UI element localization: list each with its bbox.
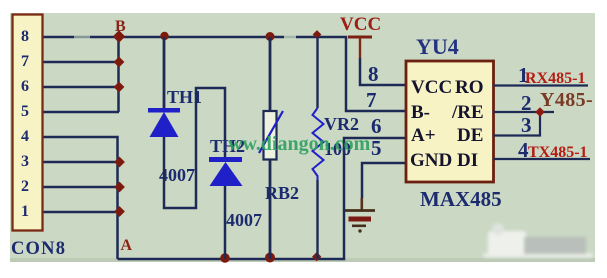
svg-text:/RE: /RE bbox=[451, 102, 484, 123]
svg-text:6: 6 bbox=[21, 78, 29, 95]
svg-text:DI: DI bbox=[457, 150, 478, 171]
svg-text:4007: 4007 bbox=[226, 210, 262, 230]
junction diamond on pin2 stub end bbox=[114, 182, 125, 193]
svg-text:GND: GND bbox=[410, 150, 452, 171]
junction dot bottom rail at TH2 bbox=[220, 253, 230, 263]
wire: chip pin5 GND to ground bbox=[362, 163, 406, 198]
diode TH1 symbol bbox=[148, 108, 180, 137]
wire fade artifact on top rail left bbox=[74, 35, 90, 40]
svg-text:VR2: VR2 bbox=[324, 114, 359, 134]
wire: TH2 anode down to bottom rail bbox=[224, 186, 227, 259]
wire: chip pin2 /RE out bbox=[494, 111, 555, 113]
connector CON8 body bbox=[13, 15, 43, 231]
wire: chip pin3 DE up to pin2 bbox=[494, 112, 541, 136]
svg-text:ww.diangon.com: ww.diangon.com bbox=[228, 133, 371, 155]
svg-text:TX485-1: TX485-1 bbox=[528, 144, 588, 161]
op-amp U1: MAX485 chip body YU4 bbox=[406, 61, 494, 182]
wire fade artifact on top rail right bbox=[284, 35, 296, 40]
resistor VR2 bottom lead bbox=[316, 180, 318, 259]
svg-text:RX485-1: RX485-1 bbox=[525, 70, 585, 87]
junction diamond on pin7 stub end bbox=[114, 57, 125, 68]
wire: CON8 pin6 stub bbox=[44, 86, 120, 89]
svg-text:YU4: YU4 bbox=[416, 34, 459, 59]
svg-text:DE: DE bbox=[457, 125, 483, 146]
svg-text:7: 7 bbox=[366, 88, 377, 112]
wire: CON8 pin1 stub bbox=[44, 211, 120, 214]
svg-text:A+: A+ bbox=[411, 125, 436, 146]
resistor RB2 bottom lead bbox=[269, 160, 272, 260]
junction diamond at node B bbox=[113, 30, 125, 42]
junction dot top rail at RB2 bbox=[266, 32, 275, 41]
wire: CON8 pin5 stub bbox=[44, 111, 120, 114]
power symbol VCC bar and stem bbox=[348, 37, 372, 58]
svg-text:Y485-: Y485- bbox=[540, 89, 593, 111]
resistor VR2 zigzag symbol bbox=[313, 108, 324, 182]
junction diamond on pin1 stub end bbox=[114, 206, 125, 217]
wire: VCC stem down to chip pin8 bbox=[360, 58, 406, 85]
resistor RB2 body (varistor box with slash) bbox=[259, 111, 283, 160]
svg-text:8: 8 bbox=[21, 28, 29, 45]
junction diamond top rail at VR2 bbox=[313, 30, 322, 39]
wire: CON8 pin7 stub bbox=[44, 61, 120, 64]
wire: chip pin4 DI out bbox=[494, 158, 591, 160]
svg-text:CON8: CON8 bbox=[11, 239, 66, 259]
diode TH1 top lead bbox=[163, 37, 166, 109]
svg-text:A: A bbox=[121, 237, 133, 254]
junction diamond on pin6 stub end bbox=[114, 82, 125, 93]
svg-text:3: 3 bbox=[21, 153, 29, 170]
junction dot bottom rail at RB2 bbox=[265, 253, 275, 263]
watermark gray blob bbox=[483, 223, 593, 258]
svg-text:5: 5 bbox=[21, 103, 29, 120]
svg-text:VCC: VCC bbox=[340, 14, 381, 35]
junction diamond bottom rail at VR2 bbox=[312, 252, 321, 261]
svg-text:5: 5 bbox=[371, 136, 382, 160]
wire: CON8 pin4 stub turning down as A net vertical bbox=[44, 137, 118, 259]
svg-text:1: 1 bbox=[21, 203, 29, 220]
wire: B net vertical joining pins 8,7,6,5 bbox=[117, 37, 120, 112]
junction diamond on pin3 stub end bbox=[114, 157, 125, 168]
wire: CON8 pin2 stub bbox=[44, 186, 120, 189]
svg-text:6: 6 bbox=[371, 114, 382, 138]
wire: pin8 to top rail B, runs to right corner bbox=[44, 37, 407, 111]
junction dot top rail at TH1 bbox=[160, 32, 168, 40]
svg-text:4: 4 bbox=[21, 128, 29, 145]
wire: CON8 pin3 stub bbox=[44, 161, 120, 164]
svg-text:MAX485: MAX485 bbox=[420, 187, 502, 211]
diode TH2 symbol bbox=[209, 157, 243, 186]
svg-text:7: 7 bbox=[21, 53, 29, 70]
svg-text:RO: RO bbox=[455, 77, 484, 98]
svg-text:VCC: VCC bbox=[411, 77, 452, 98]
wire: TH1 anode to TH2 cathode routing bbox=[164, 88, 225, 208]
svg-text:RB2: RB2 bbox=[265, 183, 299, 203]
wire: bottom A rail up to chip pin6 A+ bbox=[118, 138, 407, 259]
ground symbol bbox=[345, 211, 375, 233]
junction diamond pin2/pin3 tie bbox=[535, 107, 545, 117]
svg-text:B-: B- bbox=[411, 102, 430, 123]
resistor VR2 top lead bbox=[316, 37, 318, 108]
resistor RB2 top lead bbox=[269, 37, 272, 111]
svg-text:3: 3 bbox=[521, 113, 532, 137]
svg-text:8: 8 bbox=[368, 62, 379, 86]
wire: chip pin1 RO out bbox=[494, 84, 589, 86]
svg-text:2: 2 bbox=[21, 178, 29, 195]
